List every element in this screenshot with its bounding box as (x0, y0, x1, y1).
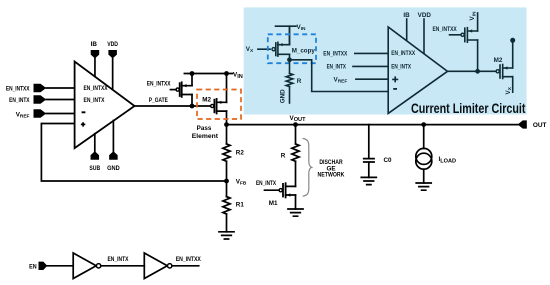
node VOUT at discharge branch (293, 122, 298, 127)
wire P_GATE (U1 output to M2 gate) (135, 105, 211, 107)
transistor M_copy (sense PMOS) (258, 26, 315, 60)
current source ILOAD (423, 125, 425, 149)
wire feedback VFB to U1 plus input (41, 124, 226, 182)
terminal GND (109, 151, 118, 159)
wire IB to U1 (94, 58, 96, 76)
wire EN to inverter 1 (47, 265, 73, 267)
svg-text:VDD: VDD (418, 12, 432, 19)
svg-text:P_GATE: P_GATE (149, 97, 168, 104)
pass element highlight box (197, 90, 241, 120)
svg-text:EN_INTXX: EN_INTXX (6, 85, 30, 92)
svg-text:EN_INTXX: EN_INTXX (391, 50, 416, 57)
ground (R1) (219, 232, 234, 239)
brace discharge network (303, 138, 312, 196)
terminal EN (39, 262, 48, 270)
svg-text:R: R (297, 78, 302, 85)
svg-text:Element: Element (192, 133, 219, 140)
terminal IB (91, 50, 100, 58)
wire VOUT rail (227, 124, 518, 126)
wire VREF to U1 minus (46, 113, 74, 115)
wire R2 to VFB (226, 161, 228, 181)
node VOUT at M2 drain (224, 122, 229, 127)
capacitor C0 (368, 125, 370, 158)
node M_copy drain junction (287, 57, 292, 62)
terminal EN_INTXX (34, 84, 47, 93)
node VIN rail right junction (224, 71, 229, 76)
svg-text:IB: IB (403, 12, 410, 19)
svg-text:EN_INTX: EN_INTX (108, 256, 130, 263)
wire VDD pin U2 (423, 19, 425, 53)
svg-text:M2: M2 (494, 57, 503, 64)
svg-text:M_copy: M_copy (292, 47, 316, 54)
node VFB (224, 179, 229, 184)
wire R1 to ground (226, 214, 228, 232)
inverter 1 (73, 253, 96, 279)
terminal OUT (518, 120, 527, 128)
wire R to M1 drain (295, 161, 297, 186)
svg-text:M1: M1 (269, 200, 278, 207)
wire M1 source to ground (295, 195, 297, 209)
wire VDD to U1 (112, 58, 114, 89)
node M2 source terminal dot (510, 38, 515, 43)
node U2 output junction (475, 69, 480, 74)
plus input mark U1 (81, 122, 85, 126)
terminal VDD (108, 50, 117, 58)
node P_GATE junction (190, 104, 195, 109)
wire EN_INTX input U2 (353, 65, 388, 67)
wire EN_INTX to U1 (46, 99, 74, 101)
wire EN_INTXX node (172, 265, 199, 267)
resistor R2 (226, 125, 228, 144)
terminal VREF (34, 109, 47, 118)
svg-text:EN_INTX: EN_INTX (9, 97, 30, 104)
wire R to GND (289, 87, 291, 103)
wire U2 output (448, 70, 497, 72)
svg-text:C0: C0 (384, 157, 393, 164)
svg-text:M2: M2 (202, 97, 211, 104)
inverter 2 (144, 253, 167, 279)
node VOUT at ILOAD branch (421, 122, 426, 127)
transistor M1 (discharge) (256, 180, 296, 207)
ground (ILOAD) (416, 183, 431, 190)
terminal SUB (91, 151, 100, 159)
wire sense node to op-amp minus input (290, 60, 389, 92)
svg-text:OUT: OUT (533, 122, 547, 129)
svg-text:NETWORK: NETWORK (318, 172, 345, 179)
transistor M2 (pass element PMOS) (202, 74, 226, 125)
svg-text:EN_INTXX: EN_INTXX (176, 256, 202, 263)
svg-text:SUB: SUB (89, 165, 100, 172)
svg-text:EN_INTX: EN_INTX (84, 97, 106, 104)
svg-text:EN_INTX: EN_INTX (327, 64, 347, 71)
svg-text:EN_INTX: EN_INTX (391, 64, 411, 71)
wire IB pin U2 (406, 19, 408, 41)
transistor Q1 (EN_INTXX shutdown PMOS) (147, 74, 192, 107)
svg-text:EN_INTXX: EN_INTXX (433, 26, 458, 33)
resistor R1 (226, 181, 228, 197)
wire EN_INTX node (101, 265, 145, 267)
ground (M1) (288, 209, 303, 216)
svg-text:GND: GND (279, 89, 286, 103)
svg-text:VDD: VDD (107, 41, 118, 48)
resistor R (discharge) (295, 125, 297, 144)
ground (C0) (361, 177, 376, 184)
transistor M2 (current limiter replica) (494, 40, 513, 92)
svg-text:EN_INTXX: EN_INTXX (84, 85, 109, 92)
node VIN rail left junction (190, 71, 195, 76)
svg-text:EN_INTXX: EN_INTXX (147, 81, 171, 88)
op-amp U2 (current limiter amp) (388, 27, 447, 113)
transistor Q3 (EN_INTXX PMOS, current limiter) (433, 13, 478, 71)
svg-text:R2: R2 (236, 149, 245, 156)
svg-text:EN: EN (29, 263, 37, 270)
svg-text:R1: R1 (236, 201, 245, 208)
wire VIN (current limiter) (276, 26, 297, 44)
wire EN_INTXX to U1 (46, 87, 74, 89)
wire EN_INTXX input U2 (355, 52, 388, 54)
svg-text:GND: GND (107, 165, 120, 172)
wire VREF input U2 (356, 78, 388, 80)
current limiter circuit background box (244, 7, 527, 114)
svg-text:Current Limiter Circuit: Current Limiter Circuit (411, 101, 526, 116)
svg-text:IB: IB (91, 41, 98, 48)
wire SUB to U1 (94, 134, 96, 152)
minus input mark U2 (393, 88, 397, 90)
svg-text:Pass: Pass (197, 125, 212, 132)
svg-text:EN_INTX: EN_INTX (256, 180, 277, 187)
svg-text:EN_INTXX: EN_INTXX (323, 50, 348, 57)
wire GND to U1 (112, 121, 114, 152)
op-amp U1 (main error amplifier) (75, 62, 135, 149)
svg-text:R: R (281, 152, 286, 159)
wire VIN rail (184, 73, 232, 75)
minus input mark U1 (82, 111, 86, 113)
terminal EN_INTX (34, 95, 47, 104)
plus input mark U2 (393, 77, 397, 81)
resistor R (current limiter) (289, 60, 291, 74)
M_copy highlight box (268, 34, 316, 63)
